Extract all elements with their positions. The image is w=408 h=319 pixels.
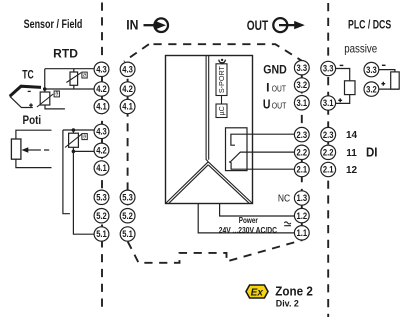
terminal 4.3 boundary col [120,62,135,76]
TC plus [29,103,33,107]
terminal number labels [96,63,377,240]
svg-text:Zone 2: Zone 2 [275,284,313,298]
svg-text:GND: GND [263,63,287,77]
terminal 2.2 boundary col [321,145,336,159]
terminal 4.1b [94,161,109,175]
terminal 3.2 [294,78,309,92]
wire Poti bottom [16,159,52,167]
terminal 5.1 [94,227,109,241]
svg-text:ϑ: ϑ [83,73,86,79]
svg-text:ϑ: ϑ [55,92,58,98]
wire Poti top [16,130,52,139]
svg-text:IN: IN [126,18,138,33]
terminal 3.2 passive [364,82,379,96]
theta box R2 [54,91,59,97]
terminal 2.3 boundary col [321,127,336,141]
wire power N to 1.2 [220,204,295,217]
terminal 1.3 [294,191,309,205]
IN/OUT equipment boundary dashed loop [124,44,302,263]
svg-text:5.3: 5.3 [96,193,107,204]
terminal 5.3 boundary col [120,190,135,204]
resistor R1 (RTD) [66,69,81,89]
terminal 3.3 passive [364,62,379,76]
node junction dot TC/RTD1 [43,87,47,91]
terminal 4.1 boundary col [120,99,135,113]
terminal 2.1 [294,162,309,176]
svg-text:U: U [263,97,271,112]
svg-text:4.3: 4.3 [122,65,133,76]
wire bracket group2 down with stub at 5.2 [63,130,70,214]
active minus [340,64,344,66]
Ex hexagon logo [246,285,268,298]
wire contact COM to 2.2 with lever [230,152,295,162]
svg-text:NC: NC [278,192,291,204]
terminal 4.3b [94,124,109,138]
svg-text:3.1: 3.1 [323,98,334,109]
terminal 4.2b [94,143,109,157]
USB icon [221,59,223,61]
terminal 3.1 [294,96,309,110]
svg-text:1.1: 1.1 [297,228,308,239]
node junction dot R3 top [72,128,76,132]
active plus [338,98,342,102]
sensor/field boundary dashed line [101,3,103,311]
svg-text:2.2: 2.2 [323,148,334,159]
theta box R1 [82,72,87,78]
svg-text:RTD: RTD [53,47,78,61]
svg-text:Poti: Poti [23,113,42,127]
svg-text:3.3: 3.3 [297,63,308,74]
TC minus [28,90,31,92]
terminal 1.1 [294,226,309,240]
svg-text:ϑ: ϑ [83,134,86,140]
svg-text:2.2: 2.2 [297,148,308,159]
terminal 5.1 boundary col [120,227,135,241]
terminal 3.3 boundary col [321,61,336,75]
wire S-PORT to uC [221,96,223,105]
svg-text:Ex: Ex [251,287,264,298]
svg-text:2.1: 2.1 [323,165,334,176]
svg-text:OUT: OUT [272,84,286,93]
terminal 3.3 [294,60,309,74]
terminal 4.3 [94,62,109,76]
terminal 5.2 boundary col [120,209,135,223]
svg-text:5.2: 5.2 [96,211,107,222]
terminal 4.2 boundary col [120,82,135,96]
S-PORT box [216,64,227,96]
passive minus [382,64,386,66]
wire RTD1 bottom to 4.2 [45,88,95,90]
svg-text:passive: passive [344,42,377,56]
svg-text:24V ...230V AC/DC: 24V ...230V AC/DC [219,225,277,235]
module front edge double line [206,56,209,162]
PLC/DCS boundary dashed line [327,3,329,317]
svg-text:S-PORT: S-PORT [217,65,226,93]
node junction dot R3 bottom [72,150,76,154]
svg-text:5.1: 5.1 [122,229,133,240]
svg-text:4.1: 4.1 [96,102,107,113]
svg-text:4.3: 4.3 [96,65,107,76]
svg-text:2.3: 2.3 [323,130,334,141]
terminal 2.3 [294,127,309,141]
terminal circles left column A [94,60,379,241]
svg-text:14: 14 [346,130,358,141]
svg-text:DI: DI [366,145,378,159]
svg-text:µC: µC [217,106,226,115]
module box U1 [166,56,253,204]
svg-text:5.1: 5.1 [96,229,107,240]
svg-text:4.1: 4.1 [122,102,133,113]
relay contact box [226,128,248,171]
active output wiring resistor [336,69,350,104]
wire contact NO to 2.3 [231,134,295,145]
svg-text:3.1: 3.1 [297,98,308,109]
terminal 5.3 [94,190,109,204]
resistor R3 (RTD) [65,130,94,151]
terminal 2.2 [294,145,309,159]
svg-text:OUT: OUT [247,18,269,33]
svg-text:11: 11 [346,148,357,159]
terminal 4.2 [94,82,109,96]
wire RTD2 top to 4.3b [63,129,94,131]
svg-text:3.3: 3.3 [366,65,377,76]
terminal 1.2 [294,208,309,222]
wire R3 bottom down to 5.1 [73,151,94,234]
svg-text:Power: Power [239,216,258,225]
svg-text:3.2: 3.2 [366,84,377,95]
uC box [216,104,227,118]
svg-text:Sensor / Field: Sensor / Field [24,17,83,31]
wire RTD1 top to 4.3 [45,68,94,70]
svg-text:4.1: 4.1 [96,163,107,174]
terminal 3.1 boundary col [321,96,336,110]
svg-text:PLC / DCS: PLC / DCS [348,17,391,31]
wire bracket RTD1 [44,69,46,92]
wire contact NC to 2.1 [229,162,294,170]
svg-text:12: 12 [346,165,358,176]
svg-text:5.2: 5.2 [122,211,133,222]
svg-text:3.3: 3.3 [323,64,334,75]
svg-text:2.3: 2.3 [297,130,308,141]
terminal 5.2 [94,209,109,223]
svg-text:2.1: 2.1 [297,165,308,176]
svg-text:1.3: 1.3 [297,193,308,204]
svg-text:4.2: 4.2 [96,146,107,157]
svg-text:OUT: OUT [272,101,287,110]
potentiometer Poti [11,139,21,159]
svg-text:5.3: 5.3 [122,193,133,204]
svg-text:4.2: 4.2 [96,84,107,95]
module wedge [166,162,253,204]
resistor R2 (TC compensation) [37,92,65,109]
thermocouple TC symbol [10,86,41,96]
svg-text:I: I [266,81,269,95]
passive output wiring resistor [379,70,399,90]
OUT icon (arrow out of circle) [273,18,295,32]
wire power L to 1.1 [198,204,294,233]
svg-text:3.2: 3.2 [297,80,308,91]
passive plus [381,82,385,86]
svg-text:1.2: 1.2 [297,211,308,222]
AC/DC symbol [284,222,291,224]
IN icon (arrow into circle) [144,18,169,32]
Poti wiper arrow [22,147,29,153]
terminal 2.1 boundary col [321,162,336,176]
svg-text:TC: TC [22,68,34,82]
theta box R3 [82,134,87,140]
svg-text:4.3: 4.3 [96,127,107,138]
svg-text:4.2: 4.2 [122,84,133,95]
svg-text:Div. 2: Div. 2 [276,298,299,309]
terminal 4.1 [94,99,109,113]
